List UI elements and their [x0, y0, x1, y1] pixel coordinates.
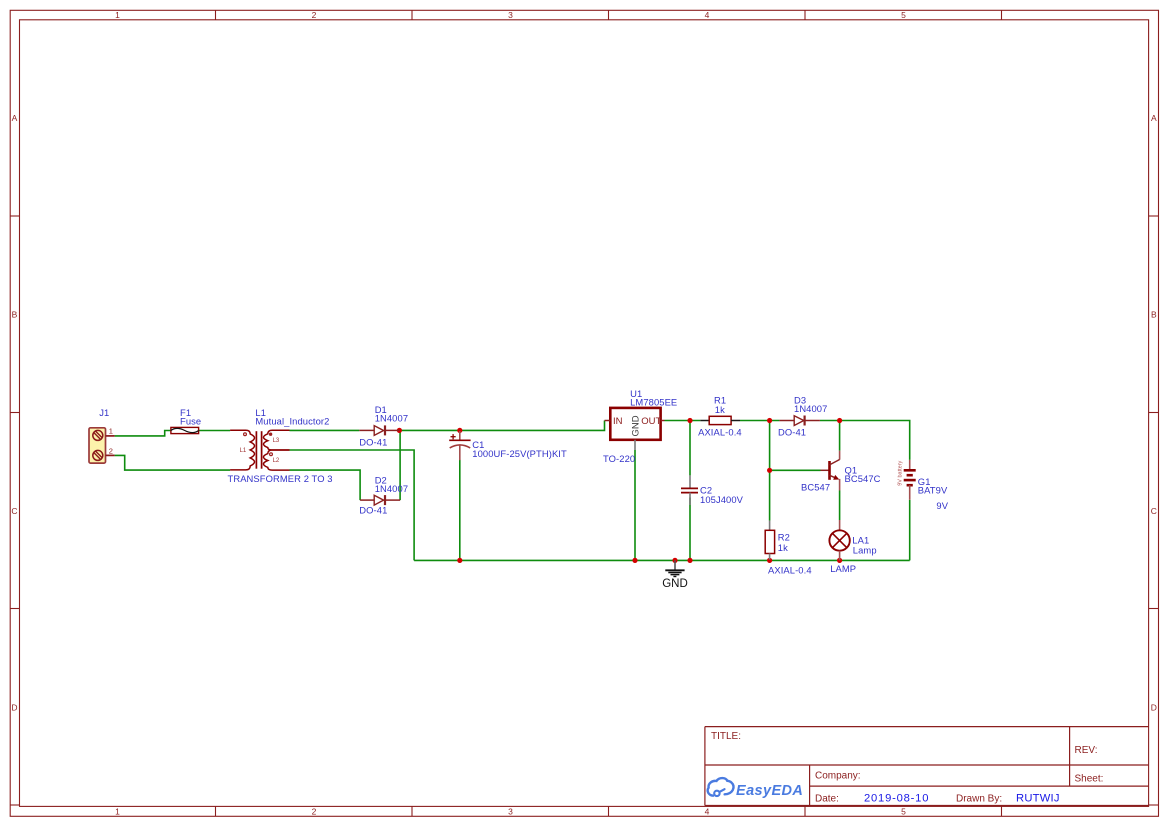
svg-text:2: 2: [312, 10, 317, 20]
svg-text:1N4007: 1N4007: [375, 413, 408, 424]
svg-text:Sheet:: Sheet:: [1075, 774, 1104, 785]
svg-text:C: C: [11, 506, 17, 516]
svg-text:Lamp: Lamp: [853, 544, 877, 555]
svg-text:Date:: Date:: [815, 794, 839, 805]
svg-text:AXIAL-0.4: AXIAL-0.4: [768, 565, 812, 576]
svg-text:LM7805EE: LM7805EE: [630, 396, 677, 407]
junction nodes: [397, 418, 842, 563]
svg-text:C: C: [1151, 506, 1157, 516]
svg-text:L2: L2: [273, 458, 280, 464]
ground: [662, 560, 688, 589]
node C1 bottom: [457, 558, 462, 563]
svg-text:BC547: BC547: [801, 482, 830, 493]
svg-text:BAT9V: BAT9V: [918, 485, 948, 496]
svg-text:DO-41: DO-41: [359, 436, 387, 447]
node GND symbol: [672, 558, 677, 563]
fuse F1: [171, 407, 201, 434]
title block: [705, 727, 1149, 806]
svg-text:1: 1: [115, 10, 120, 20]
wire D1 cathode to U1 IN: [399, 421, 604, 431]
transformer L1: [228, 407, 333, 484]
svg-text:TRANSFORMER 2 TO 3: TRANSFORMER 2 TO 3: [228, 473, 333, 484]
svg-text:D: D: [11, 702, 17, 712]
transistor Q1: [801, 451, 881, 493]
wire battery bottom to bus: [909, 500, 911, 561]
wire OUT node down to C2: [689, 421, 691, 476]
svg-text:A: A: [12, 113, 18, 123]
resistor R2: [765, 521, 811, 576]
svg-text:TO-220: TO-220: [603, 453, 635, 464]
wire fuse to transformer: [199, 430, 231, 432]
svg-text:1N4007: 1N4007: [794, 403, 827, 414]
svg-text:DO-41: DO-41: [359, 505, 387, 516]
wire ground bus: [414, 559, 910, 561]
wire D3 node down to Q1 collector: [839, 421, 841, 451]
svg-text:B: B: [1151, 309, 1157, 319]
wire U1 OUT to R1: [665, 420, 701, 422]
wire D2 cathode up to D1 node: [399, 430, 401, 500]
node R2 bottom: [767, 558, 772, 563]
svg-text:OUT: OUT: [641, 416, 661, 427]
svg-text:1k: 1k: [778, 542, 788, 553]
svg-text:9V battery: 9V battery: [898, 460, 904, 485]
svg-text:BC547C: BC547C: [845, 473, 881, 484]
capacitor C1: [449, 431, 567, 460]
svg-text:REV:: REV:: [1075, 745, 1098, 756]
svg-text:J1: J1: [99, 407, 109, 418]
wire J1 pin2 to transformer primary bottom: [115, 455, 231, 470]
svg-text:5: 5: [901, 807, 906, 817]
wires: [115, 421, 910, 561]
battery G1: [898, 460, 949, 511]
svg-text:B: B: [12, 309, 18, 319]
wire R1 to D3: [740, 420, 779, 422]
svg-text:4: 4: [705, 10, 710, 20]
node R1 right: [767, 418, 772, 423]
diode D2: [359, 475, 408, 516]
svg-text:9V: 9V: [936, 500, 948, 511]
svg-text:3: 3: [508, 807, 513, 817]
wire C2 bottom to bus: [689, 498, 691, 561]
wire base node to Q1 base: [770, 469, 821, 471]
wire D3 cathode to battery top: [820, 421, 910, 460]
svg-text:3: 3: [508, 10, 513, 20]
svg-text:5: 5: [901, 10, 906, 20]
voltage regulator U1: [603, 388, 677, 464]
capacitor C2: [681, 475, 744, 505]
svg-text:L3: L3: [273, 438, 280, 444]
svg-text:2019-08-10: 2019-08-10: [864, 793, 929, 805]
svg-text:1: 1: [109, 426, 113, 435]
node C1 top: [457, 428, 462, 433]
svg-text:LAMP: LAMP: [830, 563, 856, 574]
diode D3: [778, 394, 827, 437]
svg-text:2: 2: [109, 446, 113, 455]
node D3 cathode: [837, 418, 842, 423]
svg-text:1: 1: [115, 807, 120, 817]
wire secondary mid tap down to bus: [290, 450, 415, 560]
wire R1 node down to R2: [769, 421, 771, 521]
EasyEDA logo: [708, 778, 804, 799]
node U1 OUT: [687, 418, 692, 423]
wire Q1 emitter to lamp: [839, 491, 841, 521]
node D1 cathode: [397, 428, 402, 433]
resistor R1: [698, 395, 742, 438]
node U1 GND bus: [632, 558, 637, 563]
node lamp bottom: [837, 558, 842, 563]
wire C1 bottom to bus: [459, 460, 461, 561]
svg-text:4: 4: [705, 807, 710, 817]
svg-text:105J400V: 105J400V: [700, 494, 744, 505]
svg-text:IN: IN: [613, 416, 623, 427]
svg-text:2: 2: [312, 807, 317, 817]
node Q1 base: [767, 468, 772, 473]
svg-text:1k: 1k: [715, 404, 725, 415]
svg-text:AXIAL-0.4: AXIAL-0.4: [698, 426, 742, 437]
wire L3 top to D1: [290, 429, 360, 431]
lamp LA1: [829, 520, 876, 574]
svg-text:Fuse: Fuse: [180, 415, 201, 426]
svg-text:A: A: [1151, 113, 1157, 123]
wire U1 GND down to bus: [634, 450, 636, 560]
svg-text:Company:: Company:: [815, 771, 861, 782]
svg-text:Drawn By:: Drawn By:: [956, 794, 1002, 805]
svg-text:GND: GND: [662, 578, 688, 590]
svg-text:Mutual_Inductor2: Mutual_Inductor2: [255, 415, 329, 426]
connector J1: [89, 407, 115, 463]
svg-text:L1: L1: [240, 448, 247, 454]
svg-text:RUTWIJ: RUTWIJ: [1016, 793, 1060, 805]
wire L2 bottom down to D2: [290, 470, 361, 500]
node C2 bottom: [687, 558, 692, 563]
wire J1 pin1 to fuse: [115, 431, 171, 436]
svg-text:EasyEDA: EasyEDA: [736, 783, 803, 799]
svg-text:D: D: [1151, 702, 1157, 712]
svg-text:1N4007: 1N4007: [375, 483, 408, 494]
svg-text:TITLE:: TITLE:: [711, 731, 741, 742]
svg-text:DO-41: DO-41: [778, 427, 806, 438]
svg-text:GND: GND: [631, 415, 642, 436]
svg-text:1000UF-25V(PTH)KIT: 1000UF-25V(PTH)KIT: [472, 448, 567, 459]
diode D1: [359, 404, 408, 447]
